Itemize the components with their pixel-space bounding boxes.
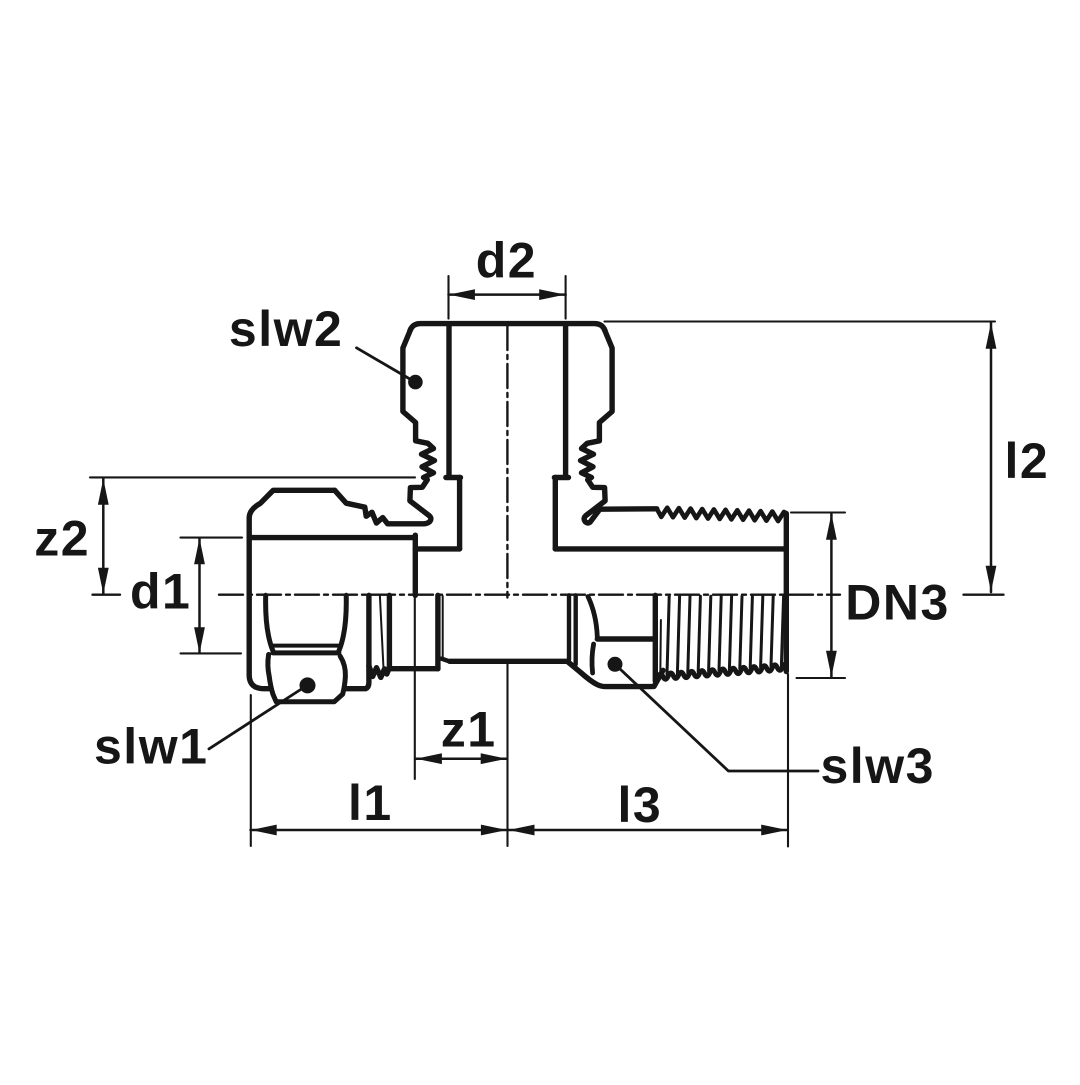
slw1 leader (209, 688, 303, 749)
d2 extension lines (447, 276, 449, 319)
nut slw1 lower hex cup (268, 655, 346, 702)
svg-text:z1: z1 (441, 702, 497, 758)
nut slw1 top silhouette + left edge + bottom corner (249, 490, 335, 688)
male thread bottom wave (657, 664, 787, 679)
nut slw2 right profile + claw (581, 329, 657, 523)
l1 dimension line (251, 829, 508, 832)
svg-text:slw3: slw3 (821, 738, 935, 794)
horizontal centerline (main axis) (93, 594, 121, 596)
body left edge (413, 535, 418, 595)
body bottom edge (below branch) (389, 666, 438, 671)
svg-text:z2: z2 (34, 511, 90, 567)
nut slw1 top line (251, 535, 416, 540)
svg-text:slw1: slw1 (94, 719, 208, 775)
mid tube bottom edge (450, 659, 568, 664)
nut slw1 bottom edge + stub crinkle W (345, 666, 390, 689)
l1 left extension line (250, 695, 252, 846)
nut slw1 hex flat lines (273, 644, 339, 648)
body step thin line (442, 596, 444, 659)
left stub tube lines (366, 595, 371, 666)
body bottom step edge (435, 595, 440, 668)
z2 arrows (98, 479, 109, 505)
slw2 leader dot (408, 375, 423, 390)
nut slw3 hex chamfer arc (588, 597, 597, 638)
slw2 leader (357, 348, 410, 379)
male thread helix lines (660, 596, 783, 675)
body top edge / thread root line (right arm) (555, 546, 786, 551)
l3 arrows (509, 825, 535, 836)
branch neck (457, 478, 462, 549)
svg-text:d1: d1 (130, 564, 191, 620)
nut slw3 inner line (597, 636, 652, 641)
d2 dimension line (449, 293, 566, 296)
d1 extension lines (181, 537, 243, 539)
nut slw1 hex arcs (lower half) (266, 595, 273, 651)
svg-text:l1: l1 (348, 775, 393, 831)
nut slw2 top face (410, 324, 605, 331)
svg-text:slw2: slw2 (229, 301, 343, 357)
nut slw3 cup left edge (592, 644, 594, 673)
step chamfer (442, 659, 450, 662)
body top edge left of neck (415, 546, 459, 551)
z1 dimension line (416, 757, 507, 760)
z1 left extension line (414, 596, 416, 780)
l3 right extension line (787, 674, 789, 847)
l3 dimension line (508, 829, 787, 832)
svg-text:DN3: DN3 (845, 575, 950, 631)
nut slw2 left profile + claw (335, 329, 435, 524)
l1 arrows (251, 825, 277, 836)
d1 arrows (194, 538, 205, 564)
nut slw3 hex right edge (653, 595, 658, 681)
svg-text:d2: d2 (476, 233, 537, 289)
nut slw3 left double lines (567, 595, 571, 659)
DN3 dimension line (830, 514, 833, 677)
vertical centerline (branch axis) (506, 326, 508, 598)
male thread end face (784, 514, 789, 672)
slw1 leader dot (300, 677, 316, 693)
left stub taper thin line (380, 596, 384, 667)
z2 extension line (90, 476, 415, 478)
d2 arrows (449, 289, 475, 300)
male thread top zigzag (657, 508, 786, 521)
l2 dimension line (990, 323, 993, 593)
svg-text:l2: l2 (1005, 433, 1050, 489)
z2 dimension line (102, 479, 105, 594)
DN3 extension lines (791, 511, 845, 513)
top branch tube (d2 cylinder) (446, 326, 451, 476)
d1 dimension line (198, 539, 201, 654)
DN3 arrows (826, 514, 837, 540)
slw3 leader dot (608, 657, 623, 672)
l2 arrows (986, 323, 997, 349)
center extension line (l1/l3) (506, 664, 508, 847)
slw3 leader (620, 669, 819, 772)
l2 extension line (605, 320, 996, 322)
nut slw3 bottom face + chamfer (568, 662, 664, 687)
svg-text:l3: l3 (618, 777, 663, 833)
z1 arrows (416, 753, 442, 764)
